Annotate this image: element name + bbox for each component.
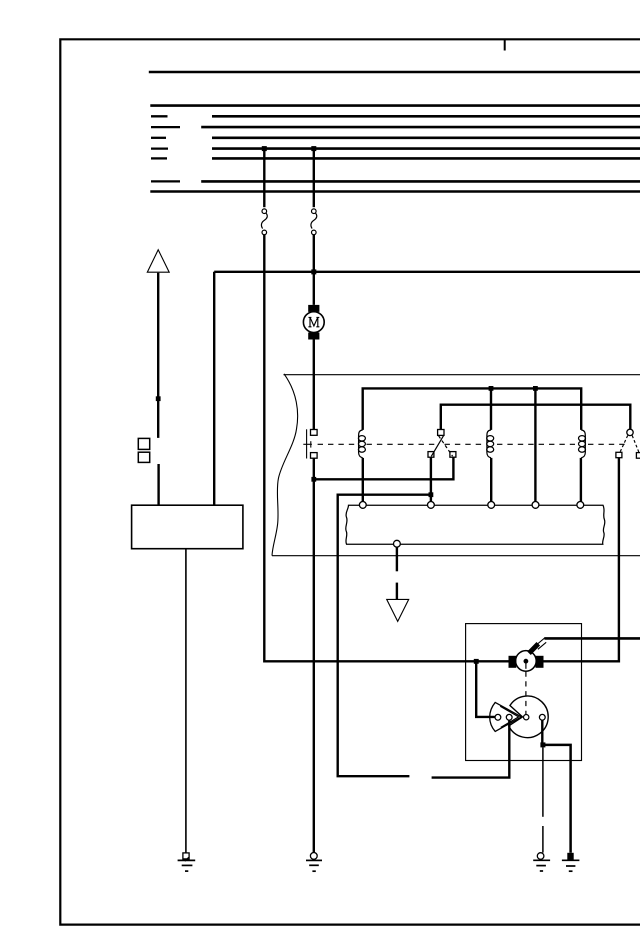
junction dot S1 wire	[311, 477, 316, 482]
junction dot on bus 6 left	[262, 146, 267, 151]
distributor box	[466, 624, 582, 761]
bus wire 7 stub	[151, 157, 167, 159]
bus wire 8 stub	[151, 180, 180, 182]
wire node corner down to control box	[213, 272, 215, 505]
points terminal 1	[495, 714, 501, 720]
bus wire 2	[150, 104, 640, 107]
motor output wire	[313, 340, 315, 430]
ground G1	[178, 853, 196, 871]
switch S2 alternate blade	[439, 436, 453, 456]
fuse F2 output wire to motor	[313, 235, 315, 305]
switch S3 left terminal	[616, 452, 622, 457]
junction dot motor node	[311, 269, 316, 274]
ground G3	[533, 853, 550, 871]
ground G4	[562, 853, 580, 871]
module boundary bottom edge	[272, 555, 640, 557]
bus wire 8	[201, 180, 640, 183]
rotor center circle	[524, 715, 529, 720]
breaker points wedge	[490, 702, 522, 731]
fuse F1 feed wire	[263, 149, 265, 208]
connector squares pair	[138, 438, 149, 462]
connector strip outline	[346, 505, 605, 544]
points wedge inner chevron	[500, 706, 518, 727]
arrow wire lower segment	[157, 464, 159, 505]
breaker contact S1 plunger	[303, 429, 312, 458]
motor M1	[303, 305, 324, 340]
ground G2	[306, 853, 322, 872]
connector pin circle 5	[577, 502, 584, 509]
condenser wire to points	[476, 661, 495, 717]
wire S2 to distributor points	[338, 495, 431, 777]
rotor shaft dashed line	[525, 663, 527, 669]
top border tick mark	[504, 39, 506, 51]
junction dot ignition feed	[474, 659, 479, 664]
ignition coil T1	[509, 651, 544, 672]
bus wire 3 stub	[151, 115, 168, 117]
bus wire 4	[201, 126, 640, 129]
arrow wire	[157, 273, 159, 438]
link wire S1 to S2 right contact	[314, 457, 454, 479]
module boundary torn left edge	[272, 374, 298, 556]
switch S2 left terminal	[428, 452, 434, 458]
bus wire 5 stub	[151, 137, 166, 139]
breaker contact S1 lower terminal	[311, 453, 318, 459]
switch bus wire	[441, 405, 631, 430]
fuse F1	[261, 209, 267, 235]
switch S3 wire to ignition coil	[544, 458, 619, 662]
module boundary top edge	[284, 374, 640, 376]
switch S1 ground wire	[313, 458, 315, 852]
node wire to right edge	[214, 271, 640, 273]
relay coil L1	[358, 430, 365, 458]
drop wire lower segment	[396, 583, 398, 599]
coil L1 output wire	[362, 458, 364, 502]
distributor cap	[509, 696, 548, 738]
drop wire upper segment	[396, 547, 398, 571]
wire to ground G4	[543, 745, 571, 853]
relay coil L2	[487, 430, 494, 458]
connector pin circle bottom	[394, 540, 401, 547]
arrow symbol down	[387, 599, 409, 621]
switch S2 blade	[431, 436, 443, 457]
bus wire 3	[212, 115, 640, 118]
junction dot on arrow wire	[156, 396, 161, 401]
connector pin circle 3	[488, 502, 495, 509]
relay coil L3	[579, 430, 586, 458]
switch S3 blade left	[620, 436, 628, 453]
control box ground wire	[185, 549, 187, 853]
points terminal 2	[506, 714, 512, 720]
bus wire 4 stub	[151, 126, 180, 128]
connector pin circle 2	[428, 502, 435, 509]
power arrow symbol	[147, 250, 169, 272]
points terminal 3	[539, 714, 545, 720]
connector pin circle 4	[532, 502, 539, 509]
points terminal 3 wire	[541, 720, 543, 745]
bus wire 5	[212, 137, 640, 140]
bus wire 6	[212, 147, 640, 150]
mechanical linkage dashed line	[318, 443, 627, 445]
bus wire 7	[212, 157, 640, 160]
bus wire 6 stub	[151, 147, 168, 149]
junction dot terminal 3	[540, 742, 545, 747]
control box	[132, 505, 243, 549]
thin ground wire lower	[542, 826, 544, 853]
coil tower lead	[529, 638, 546, 654]
junction dot on bus 6 right	[311, 146, 316, 151]
coil L3 output wire	[580, 458, 582, 502]
junction dot relay bus A	[489, 386, 494, 391]
bus wire 9	[150, 190, 640, 193]
switch S2 top terminal	[438, 430, 444, 436]
fuse F1 output wire to ignition coil node	[264, 235, 508, 662]
connector pin circle 1	[359, 502, 366, 509]
relay top bus wire	[363, 388, 582, 430]
fuse F2	[311, 209, 317, 235]
fuse F2 feed wire	[313, 149, 315, 208]
bus wire 1	[149, 71, 640, 74]
coil L2 output wire	[490, 458, 492, 502]
switch S3 right terminal	[636, 453, 640, 459]
switch S2 right terminal	[450, 452, 456, 458]
wire break continuation to points terminal	[432, 720, 510, 777]
switch S3 top terminal	[627, 429, 633, 435]
coil L2 feed wire	[490, 388, 492, 430]
junction dot relay bus B	[533, 386, 538, 391]
pass-through wire to connector	[534, 388, 536, 501]
thin ground wire upper	[542, 747, 544, 816]
high tension wire to right edge	[544, 637, 640, 640]
switch S3 blade right	[632, 436, 639, 453]
breaker contact S1 upper terminal	[311, 430, 318, 436]
junction dot S2 left	[429, 492, 434, 497]
switch S2 left output wire	[430, 457, 432, 501]
